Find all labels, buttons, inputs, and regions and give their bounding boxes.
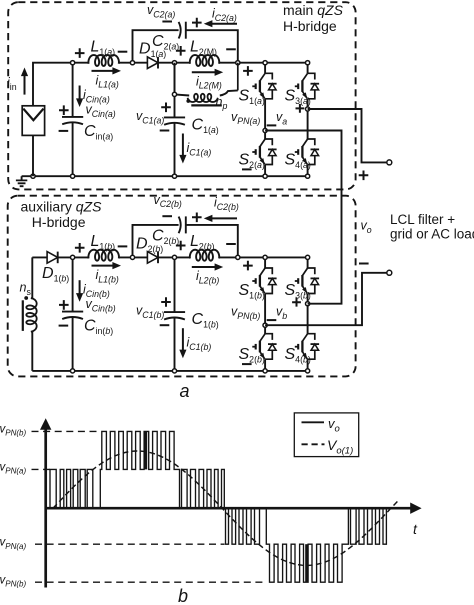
wire spine a <box>33 63 308 106</box>
node C2-left(b) spine <box>130 255 134 259</box>
current arrow iL1(b) <box>92 265 115 267</box>
transistor S3(a) <box>295 73 319 99</box>
terminal + <box>387 160 392 165</box>
node phase-right(b) <box>306 302 310 306</box>
node rail-bottom(b) x=174.5 <box>172 369 176 373</box>
wire Cin(b) branch <box>72 257 74 371</box>
capacitor Cin(b) <box>62 311 83 313</box>
capacitor Cin(a) <box>62 116 83 118</box>
node rail-bottom(a) x=72.6 <box>71 174 75 178</box>
current arrow iC2(b) <box>210 217 237 219</box>
winding ns (transformer secondary) <box>31 257 33 371</box>
transistor S1(a) <box>252 73 276 99</box>
svg-text:main qZS: main qZS <box>283 2 344 18</box>
node C1(a) spine <box>172 61 176 65</box>
wire main output + <box>308 109 387 162</box>
current arrow iC1(a) <box>182 134 184 157</box>
current arrow iL2(b) <box>192 266 217 268</box>
capacitor C1(b) <box>164 311 185 313</box>
svg-text:H-bridge: H-bridge <box>283 18 337 34</box>
wire C2(a) branch <box>133 30 238 63</box>
label vPN(b) <box>243 261 253 271</box>
vo pulse waveform negative <box>226 508 391 582</box>
diode D1(a) <box>147 57 158 69</box>
node phase-right(a) <box>306 107 310 111</box>
transistor S1(b) <box>252 268 276 294</box>
node phase-left(b) <box>263 323 267 327</box>
sine Vo(1) dashed <box>53 451 398 565</box>
node C2-left(a) spine <box>130 61 134 65</box>
wire bridge legs b <box>264 257 266 371</box>
transistor S2(a) <box>252 139 276 165</box>
current arrow i_in <box>24 74 26 95</box>
wire PV bottom <box>32 135 34 176</box>
wire bottom rail b <box>32 370 307 372</box>
waveform y-axis <box>44 427 47 588</box>
node rail-bottom(b) x=72.6 <box>71 369 75 373</box>
inductor L2(M) <box>190 55 219 66</box>
transistor S4(a) <box>295 139 319 165</box>
wire spine b <box>32 256 307 258</box>
node rail-bottom(a) x=174.5 <box>172 174 176 178</box>
vo pulse waveform positive <box>46 431 226 508</box>
node leg2(a) spine <box>306 61 310 65</box>
current arrow iCin(a) <box>79 86 81 101</box>
node rail-bottom(b) x=265.1 <box>263 369 267 373</box>
svg-text:a: a <box>180 381 190 401</box>
inductor L2(b) <box>190 250 219 261</box>
wire va to aux bridge <box>265 131 341 304</box>
main qZS H-bridge dashed box <box>8 2 355 189</box>
wire C1(a) branch <box>174 63 176 177</box>
wire aux output - <box>265 273 387 325</box>
wire bridge legs a <box>264 63 266 177</box>
node Cin(b) spine <box>71 255 75 259</box>
capacitor C2(a) <box>179 22 181 39</box>
diode D1(b) <box>47 252 58 264</box>
node rail-bottom(b) x=307.6 <box>306 369 310 373</box>
node Cin(a) spine <box>71 61 75 65</box>
node P(a) spine <box>236 61 240 65</box>
ground <box>21 176 23 180</box>
svg-text:auxiliary qZS: auxiliary qZS <box>21 199 103 215</box>
node leg2(b) spine <box>306 255 310 259</box>
node leg1(b) spine <box>263 255 267 259</box>
wire Cin(a) branch <box>72 63 74 177</box>
current arrow iC1(b) <box>182 328 184 351</box>
transistor S3(b) <box>295 268 319 294</box>
node rail-bottom(a) x=307.6 <box>306 174 310 178</box>
node P(b) spine <box>236 255 240 259</box>
wire bottom rail a <box>22 175 308 177</box>
node leg1(a) spine <box>263 61 267 65</box>
transistor S2(b) <box>252 334 276 360</box>
terminal - <box>387 270 392 275</box>
current arrow iC2(a) <box>210 23 237 25</box>
label vPN(a) <box>243 66 253 76</box>
wire C2(b) branch <box>133 225 238 258</box>
capacitor C2(b) <box>179 217 181 234</box>
transistor S4(b) <box>295 334 319 360</box>
current arrow iL2(M) <box>192 71 217 73</box>
current arrow iL1(a) <box>92 70 115 72</box>
auxiliary qZS H-bridge dashed box <box>8 196 356 377</box>
node rail-bottom(a) x=265.1 <box>263 174 267 178</box>
inductor L1(a) <box>88 55 119 66</box>
node rail-bottom(a) x=33.0 <box>31 174 35 178</box>
capacitor C1(a) <box>164 116 185 118</box>
wire C1(b) branch <box>174 257 176 371</box>
PV panel source <box>22 106 44 136</box>
inductor L1(b) <box>88 250 119 261</box>
dashed level lines <box>32 430 100 432</box>
svg-text:LCL filter +: LCL filter + <box>390 212 455 227</box>
svg-text:H-bridge: H-bridge <box>32 214 86 230</box>
waveform x-axis <box>46 507 411 510</box>
legend box <box>294 413 358 457</box>
current arrow iCin(b) <box>79 280 81 295</box>
diode D2(b) <box>147 252 158 264</box>
node C1(b) spine <box>172 255 176 259</box>
svg-text:b: b <box>178 586 188 605</box>
winding np (transformer primary) <box>175 90 238 95</box>
node phase-left(a) <box>263 128 267 132</box>
svg-text:grid or AC load: grid or AC load <box>390 227 474 242</box>
